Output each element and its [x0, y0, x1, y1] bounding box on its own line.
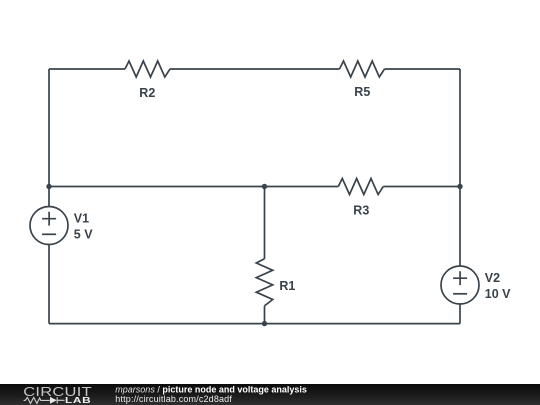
svg-text:mparsons / picture node and vo: mparsons / picture node and voltage anal…	[115, 384, 307, 394]
node junction center middle	[262, 184, 267, 189]
wire left vertical lower (V1 to bottom)	[48, 245, 50, 324]
resistor R2	[125, 61, 170, 77]
svg-text:10 V: 10 V	[485, 287, 511, 301]
resistor R3	[338, 179, 383, 195]
logo resistor zigzag	[24, 397, 50, 403]
svg-text:V1: V1	[74, 212, 89, 226]
wire right vertical upper	[459, 69, 461, 266]
svg-text:R1: R1	[279, 279, 295, 293]
wire right vertical lower (V2 to bottom)	[459, 304, 461, 324]
wire left vertical upper	[48, 69, 50, 207]
wire middle horizontal right lead of R3	[383, 186, 460, 188]
svg-text:V2: V2	[485, 271, 500, 285]
wire R1 top lead vertical	[264, 187, 266, 259]
resistor R1	[256, 259, 272, 306]
wire top horizontal between R2 and R5	[170, 68, 340, 70]
wire R1 bottom lead vertical	[264, 306, 266, 324]
node junction right middle	[457, 184, 462, 189]
svg-text:LAB: LAB	[65, 396, 91, 405]
wire top right lead of R5	[385, 68, 461, 70]
voltage source V1	[30, 207, 68, 245]
V2 plus sign	[453, 271, 467, 285]
wire bottom horizontal	[49, 323, 460, 325]
V1 plus sign	[42, 212, 56, 226]
voltage source V2	[441, 266, 479, 304]
svg-text:R3: R3	[353, 203, 369, 217]
node junction bottom center	[262, 321, 267, 326]
svg-text:R2: R2	[139, 86, 155, 100]
wire top horizontal (left lead of R2)	[49, 68, 125, 70]
V1 minus sign	[42, 233, 56, 235]
logo diode bar	[57, 397, 64, 403]
logo diode triangle	[50, 397, 57, 404]
svg-text:5 V: 5 V	[74, 228, 93, 242]
V2 minus sign	[453, 293, 467, 295]
node junction left middle	[46, 184, 51, 189]
resistor R5	[340, 61, 385, 77]
svg-text:http://circuitlab.com/c2d8adf: http://circuitlab.com/c2d8adf	[115, 394, 232, 404]
svg-text:R5: R5	[354, 85, 370, 99]
wire middle horizontal left segment	[49, 186, 338, 188]
